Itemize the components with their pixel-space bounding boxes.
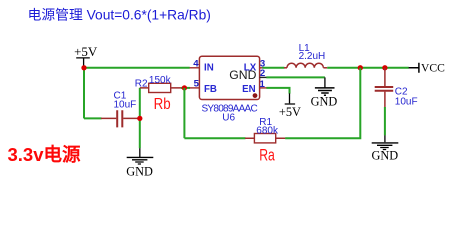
pin 4	[190, 59, 200, 70]
op chip U6 SY8089AAAC	[199, 56, 259, 123]
pin 2	[260, 68, 267, 79]
svg-text:GND: GND	[371, 149, 398, 163]
svg-text:GND: GND	[126, 164, 153, 178]
svg-text:GND: GND	[311, 95, 338, 109]
wire Ra to VCC riser	[285, 68, 360, 138]
svg-text:Ra: Ra	[259, 147, 275, 165]
inductor L1	[284, 43, 327, 68]
svg-text:+5V: +5V	[74, 44, 98, 59]
svg-text:FB: FB	[204, 84, 217, 95]
capacitor C1	[101, 91, 140, 128]
pin 1	[260, 79, 267, 90]
power +5V at EN	[279, 93, 301, 119]
wire GND pin to ground	[266, 76, 325, 78]
power port VCC	[409, 61, 446, 74]
svg-text:EN: EN	[242, 84, 255, 95]
svg-text:VCC: VCC	[421, 61, 445, 74]
resistor R2	[135, 75, 182, 92]
svg-text:5: 5	[194, 79, 200, 90]
pin 5	[190, 79, 200, 90]
svg-text:4: 4	[193, 59, 199, 70]
wire L1 to VCC	[327, 67, 409, 69]
junction VCC-Ra	[358, 65, 363, 70]
junction +5V	[81, 65, 86, 70]
capacitor C2	[375, 68, 418, 108]
svg-text:3.3v电源: 3.3v电源	[8, 144, 82, 165]
svg-text:GND: GND	[229, 68, 256, 82]
resistor R1	[245, 117, 285, 143]
wire FB stub	[181, 87, 190, 89]
junction C1	[137, 116, 142, 121]
wire +5V to IN	[84, 67, 190, 69]
svg-text:1: 1	[260, 79, 266, 90]
power +5V top-left	[74, 44, 98, 66]
wire to C1	[84, 117, 102, 119]
wire R2 left / C1 junction vertical	[139, 88, 141, 148]
wire C2 down	[384, 107, 386, 135]
ground GND right of chip	[311, 77, 338, 108]
svg-text:U6: U6	[222, 112, 235, 123]
wire LX to L1	[262, 67, 284, 69]
svg-text:R2: R2	[135, 78, 148, 89]
svg-text:10uF: 10uF	[395, 96, 418, 107]
svg-text:10uF: 10uF	[114, 100, 137, 111]
svg-text:150k: 150k	[149, 75, 172, 86]
svg-text:IN: IN	[204, 63, 214, 74]
svg-text:2.2uH: 2.2uH	[299, 51, 326, 62]
junction FB	[182, 85, 187, 90]
svg-text:680k: 680k	[256, 126, 279, 137]
wire FB down	[183, 88, 185, 138]
junction VCC-C2	[382, 65, 387, 70]
svg-text:Rb: Rb	[154, 96, 171, 113]
pin 3	[260, 58, 266, 69]
svg-text:电源管理 Vout=0.6*(1+Ra/Rb): 电源管理 Vout=0.6*(1+Ra/Rb)	[28, 8, 211, 23]
pin marker dot	[253, 93, 258, 98]
svg-text:+5V: +5V	[279, 105, 301, 119]
wire to Ra	[184, 137, 245, 139]
svg-text:2: 2	[260, 68, 265, 79]
wire EN to +5V	[266, 88, 289, 94]
wire +5V down	[83, 68, 85, 119]
ground GND under C1	[126, 148, 153, 178]
ground GND bottom right	[371, 135, 398, 162]
